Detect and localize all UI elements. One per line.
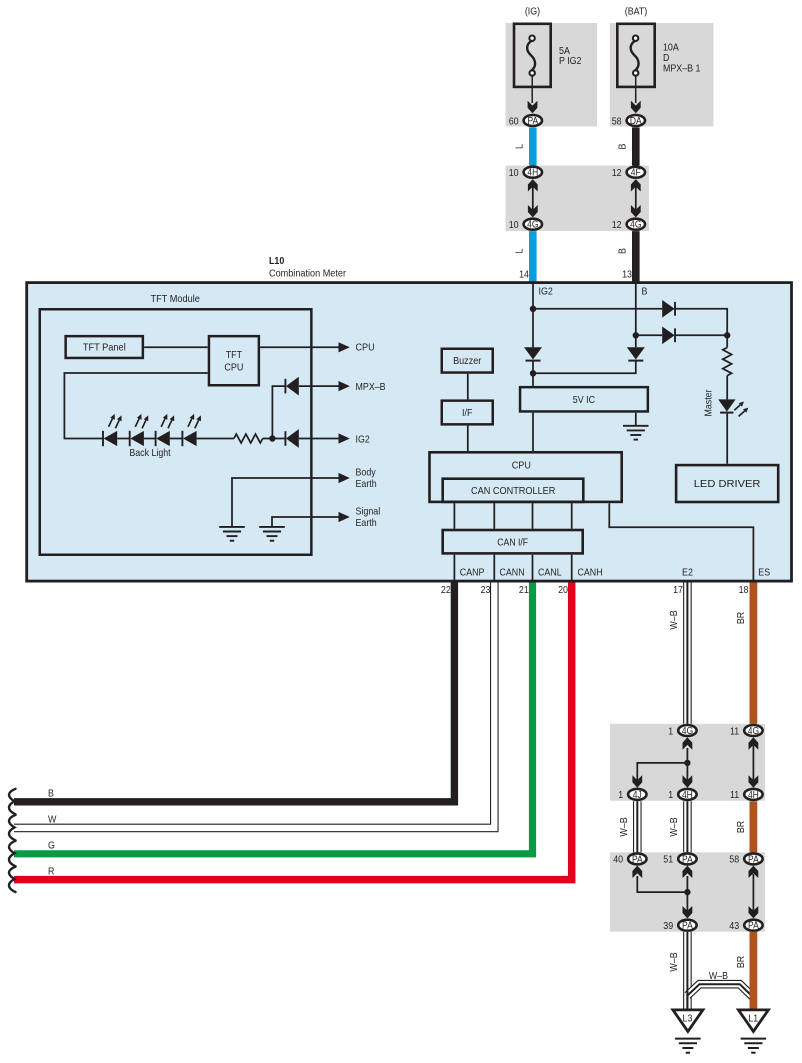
arrow MPX-B — [339, 381, 350, 391]
wire G green CANL — [14, 583, 533, 854]
svg-text:Body: Body — [356, 468, 377, 479]
node right rail — [724, 332, 730, 338]
CAN I/F box — [443, 530, 583, 553]
svg-text:TFT Module: TFT Module — [151, 294, 201, 305]
svg-text:12: 12 — [612, 168, 622, 179]
node 5V — [530, 370, 536, 376]
wire LED D1 to D2 — [117, 438, 130, 440]
svg-text:W: W — [48, 815, 57, 826]
connector 1 4G — [668, 725, 696, 737]
resistor R2 master — [723, 348, 732, 376]
CPU box — [430, 452, 622, 502]
svg-text:20: 20 — [558, 585, 568, 596]
svg-text:B: B — [617, 143, 628, 149]
diode D3 on IG2 rail — [524, 347, 542, 360]
wire L blue PA to 4H — [529, 127, 537, 166]
TFT Panel box — [66, 336, 143, 358]
I/F box — [442, 401, 493, 425]
svg-text:L10: L10 — [269, 256, 285, 267]
svg-text:39: 39 — [663, 921, 673, 932]
svg-text:11: 11 — [730, 726, 739, 737]
svg-text:PA: PA — [632, 854, 643, 865]
wire B black CANP — [14, 583, 454, 802]
wire CANH ctrl to CAN I/F — [571, 503, 573, 529]
svg-text:13: 13 — [622, 269, 632, 280]
svg-text:43: 43 — [729, 921, 739, 932]
wire 1 4G to junction — [686, 748, 688, 780]
node IG2 top — [530, 306, 536, 312]
junction block gray box (BAT fuse) — [610, 23, 714, 127]
connector 60 PA — [509, 115, 542, 127]
wire signal earth — [272, 517, 340, 526]
arrow below 51 PA — [683, 866, 693, 878]
wire diode D2 to right rail — [675, 334, 727, 336]
svg-text:11: 11 — [730, 790, 739, 801]
fuse F1 5A P IG2 — [514, 24, 551, 87]
svg-text:PA: PA — [682, 854, 693, 865]
arrow above 1 4H — [683, 775, 693, 787]
svg-text:W–B: W–B — [669, 952, 680, 971]
wire CANL ctrl to CAN I/F — [532, 503, 534, 529]
svg-text:L1: L1 — [748, 1014, 758, 1025]
svg-text:23: 23 — [481, 585, 491, 596]
svg-text:58: 58 — [729, 855, 739, 866]
connector gray box 4H/4G — [506, 166, 650, 232]
svg-text:TFT: TFT — [226, 350, 242, 361]
svg-text:W–B: W–B — [709, 971, 728, 982]
connector 51 PA — [663, 853, 696, 865]
connector 39 PA — [663, 920, 696, 932]
arrow pair 11 4G-4H — [749, 737, 759, 787]
wire diode D4 down and across — [533, 361, 636, 374]
wire TFT CPU to CPU arrow — [260, 346, 339, 348]
svg-text:Back Light: Back Light — [129, 448, 170, 459]
wire BR 43 PA to L1 — [750, 932, 758, 1010]
wire 5V IC to CPU — [532, 413, 534, 451]
svg-text:L3: L3 — [683, 1014, 693, 1025]
fuse F1 value label — [559, 46, 582, 67]
wire TFT CPU left branch — [64, 373, 207, 439]
arrow into connector DA — [631, 101, 641, 113]
continuation mark W — [9, 815, 16, 841]
svg-text:L: L — [514, 248, 525, 253]
continuation mark B — [9, 789, 16, 815]
wire CANH to pin 20 — [571, 555, 573, 582]
svg-text:IG2: IG2 — [539, 287, 554, 298]
connector 40 PA — [613, 853, 646, 865]
svg-text:MPX–B 1: MPX–B 1 — [663, 63, 701, 74]
arrow pair 58-43 PA — [749, 866, 759, 919]
continuation mark R — [9, 867, 16, 893]
ground 5V IC — [623, 426, 649, 440]
wire CANN ctrl to CAN I/F — [493, 503, 495, 529]
svg-text:Earth: Earth — [356, 518, 377, 529]
svg-text:R: R — [48, 866, 54, 877]
wire master LED to LED driver — [726, 414, 728, 464]
svg-text:Earth: Earth — [356, 479, 377, 490]
wire resistor R2 to master LED — [726, 376, 728, 400]
svg-text:IG2: IG2 — [356, 434, 371, 445]
svg-text:4H: 4H — [748, 790, 759, 801]
label Body Earth — [356, 468, 377, 490]
arrow CPU — [339, 342, 350, 352]
Buzzer box — [442, 349, 493, 373]
LED master — [718, 399, 748, 416]
svg-text:W–B: W–B — [619, 817, 630, 836]
connector 1 4H — [668, 789, 696, 801]
wire right rail to resistor — [726, 335, 728, 347]
arrow Body Earth — [339, 473, 350, 483]
wire L blue 4G to pin 14 — [529, 231, 537, 282]
svg-text:18: 18 — [739, 585, 749, 596]
diode D4 on B rail — [627, 347, 645, 360]
svg-text:MPX–B: MPX–B — [356, 382, 386, 393]
ground point L3 — [673, 1010, 703, 1032]
CAN CONTROLLER box — [443, 479, 584, 502]
svg-text:Master: Master — [704, 389, 715, 417]
wire 5V IC to ground — [635, 413, 637, 426]
svg-text:17: 17 — [673, 585, 683, 596]
svg-text:L: L — [514, 144, 525, 149]
wire branch to 4J — [637, 763, 687, 780]
wire IG2 vertical — [532, 282, 534, 348]
wire B black DA to 4F — [632, 127, 640, 166]
svg-text:W–B: W–B — [669, 817, 680, 836]
arrow pair 4H-4G — [528, 179, 538, 217]
connector 58 PA — [729, 853, 762, 865]
svg-text:Signal: Signal — [356, 507, 381, 518]
arrow pair 4F-4G — [631, 179, 641, 217]
wire fuse F1 to connector PA — [531, 76, 533, 103]
svg-text:PA: PA — [527, 116, 538, 127]
connector 58 DA — [612, 115, 645, 127]
svg-text:22: 22 — [441, 585, 451, 596]
svg-text:10: 10 — [509, 168, 519, 179]
svg-text:1: 1 — [618, 790, 623, 801]
label L10 Combination Meter — [269, 256, 347, 279]
svg-text:D: D — [663, 53, 669, 64]
svg-text:BR: BR — [736, 821, 747, 833]
wire B to diode row2 — [636, 334, 662, 336]
node IG2 junction — [269, 435, 275, 441]
wire body earth — [232, 478, 340, 526]
ground body earth — [219, 527, 245, 541]
svg-text:B: B — [48, 789, 54, 800]
svg-text:CAN CONTROLLER: CAN CONTROLLER — [471, 486, 555, 497]
back light LED D1 — [103, 414, 122, 446]
svg-text:I/F: I/F — [462, 408, 472, 419]
svg-text:1: 1 — [668, 726, 673, 737]
svg-text:CPU: CPU — [356, 343, 375, 354]
arrow IG2 — [339, 433, 350, 443]
svg-text:10: 10 — [509, 220, 519, 231]
wire LED D2 to D3 — [144, 438, 156, 440]
connector 11 4H — [730, 789, 763, 801]
svg-text:CPU: CPU — [512, 461, 531, 472]
arrow above 1 4J — [632, 775, 642, 787]
svg-text:40: 40 — [613, 855, 623, 866]
svg-text:G: G — [48, 841, 55, 852]
svg-text:B: B — [642, 287, 648, 298]
svg-text:4H: 4H — [682, 790, 693, 801]
svg-text:Buzzer: Buzzer — [453, 356, 482, 367]
diode D5 MPX-B — [285, 377, 298, 396]
svg-text:PA: PA — [682, 921, 693, 932]
wire W-B stripe repair — [686, 990, 688, 1010]
ground symbol L3 — [675, 1039, 701, 1053]
svg-text:60: 60 — [509, 116, 519, 127]
arrow below 1 4G — [683, 737, 693, 749]
ground signal earth — [259, 527, 285, 541]
svg-text:PA: PA — [748, 854, 759, 865]
svg-text:4H: 4H — [527, 168, 538, 179]
TFT module box — [40, 309, 312, 555]
connector 10 4H — [509, 167, 542, 179]
svg-text:(BAT): (BAT) — [625, 7, 648, 18]
back light LED D4 — [182, 414, 201, 446]
svg-text:12: 12 — [612, 220, 622, 231]
svg-text:E2: E2 — [682, 568, 693, 579]
wire W-B 4J to 40 PA — [633, 801, 642, 853]
svg-text:CPU: CPU — [224, 363, 243, 374]
svg-text:4G: 4G — [630, 220, 641, 231]
connector 10 4G — [509, 219, 542, 231]
node E2 branch — [684, 760, 690, 766]
svg-text:B: B — [617, 248, 628, 254]
wire LED D4 to resistor — [197, 438, 234, 440]
wire CANP to pin 22 — [453, 555, 455, 582]
wire W-B 39 PA to L3 — [683, 932, 692, 1010]
svg-text:4J: 4J — [633, 790, 642, 801]
wire diode D6 to IG2 arrow — [299, 438, 340, 440]
LED DRIVER box — [676, 465, 778, 502]
svg-text:P IG2: P IG2 — [559, 56, 582, 67]
svg-text:CAN I/F: CAN I/F — [497, 537, 528, 548]
svg-text:14: 14 — [519, 269, 529, 280]
connector 11 4G — [730, 725, 763, 737]
svg-text:10A: 10A — [663, 42, 679, 53]
connector 43 PA — [729, 920, 762, 932]
diode D6 IG2 — [285, 429, 298, 448]
svg-text:4G: 4G — [527, 220, 538, 231]
wire resistor to node — [263, 438, 286, 440]
svg-text:CANP: CANP — [460, 568, 485, 579]
wire CANN to pin 23 — [493, 555, 495, 582]
ground point L1 — [738, 1010, 768, 1032]
svg-text:5V IC: 5V IC — [573, 395, 595, 406]
TFT CPU box — [209, 336, 259, 385]
wire buzzer to I/F — [467, 374, 469, 400]
svg-text:4F: 4F — [631, 168, 641, 179]
wire diode D3 down to 5V node — [532, 361, 534, 386]
diode D1 row1 — [662, 300, 675, 318]
wire LED D3 to D4 — [170, 438, 183, 440]
wire node up to MPX-B diode — [272, 386, 285, 438]
svg-text:DA: DA — [630, 116, 642, 127]
fuse F2 10A D MPX-B 1 — [617, 24, 654, 87]
svg-text:58: 58 — [612, 116, 622, 127]
svg-text:21: 21 — [519, 585, 529, 596]
wire R red CANH — [14, 583, 572, 880]
arrow Signal Earth — [339, 512, 350, 522]
back light LED D2 — [130, 414, 149, 446]
wire B black 4G to pin 13 — [632, 231, 640, 282]
wire W-B 4H to 51 PA — [683, 801, 692, 853]
svg-text:4G: 4G — [682, 726, 693, 737]
5V IC box — [520, 387, 648, 411]
svg-text:1: 1 — [668, 790, 673, 801]
connector 12 4G — [612, 219, 645, 231]
wire IG2 to diode row1 — [533, 308, 662, 310]
connector gray box 4G/4J/4H — [610, 724, 765, 801]
continuation mark G — [9, 841, 16, 867]
wire CPU to ES pin — [609, 503, 753, 582]
svg-text:51: 51 — [663, 855, 673, 866]
combination meter box — [27, 283, 792, 581]
ground symbol L1 — [741, 1039, 767, 1053]
arrow below 40 PA — [632, 866, 642, 878]
junction block gray box (IG fuse) — [506, 23, 598, 127]
svg-text:CANH: CANH — [578, 568, 603, 579]
svg-text:Combination Meter: Combination Meter — [269, 268, 347, 279]
connector 1 4J — [618, 789, 646, 801]
wire BR ES to 4G — [750, 583, 758, 725]
diode D2 row2 — [662, 327, 675, 345]
label Signal Earth — [356, 507, 381, 529]
arrow above 39 PA — [683, 906, 693, 918]
svg-text:CANL: CANL — [538, 568, 562, 579]
wire W-B E2 to 4G — [683, 583, 692, 725]
svg-text:CANN: CANN — [500, 568, 525, 579]
wire 51 PA to 39 PA — [686, 876, 688, 912]
wire I/F to CPU — [467, 426, 469, 451]
wire TFT Panel to TFT CPU — [144, 346, 208, 348]
svg-text:BR: BR — [736, 612, 747, 624]
wire W white CANN — [14, 583, 494, 828]
node PA junction — [684, 889, 690, 895]
wire BR 4H to 58 PA — [750, 801, 758, 853]
connector gray box PA — [610, 852, 765, 931]
fuse F2 value label — [663, 42, 701, 74]
wire B vertical — [635, 282, 637, 348]
arrow into connector PA — [528, 101, 538, 113]
svg-text:LED DRIVER: LED DRIVER — [694, 479, 761, 490]
svg-text:ES: ES — [758, 568, 770, 579]
back light LED D3 — [156, 414, 175, 446]
svg-text:4G: 4G — [748, 726, 759, 737]
wire fuse F2 to connector DA — [635, 76, 637, 103]
wire 40 PA to junction — [637, 876, 687, 892]
wire CANL to pin 21 — [532, 555, 534, 582]
node B — [633, 332, 639, 338]
wire W-B jumper L3 to L1 — [687, 984, 753, 997]
svg-text:BR: BR — [736, 956, 747, 968]
resistor R1 — [234, 434, 263, 443]
wire CANP ctrl to CAN I/F — [453, 503, 455, 529]
svg-text:TFT Panel: TFT Panel — [83, 342, 126, 353]
svg-text:W–B: W–B — [669, 610, 680, 629]
connector 12 4F — [612, 167, 645, 179]
wire diode D5 to MPX-B arrow — [299, 385, 340, 387]
wire diode D1 to right rail — [675, 309, 727, 336]
svg-text:PA: PA — [748, 921, 759, 932]
svg-text:(IG): (IG) — [525, 7, 540, 18]
